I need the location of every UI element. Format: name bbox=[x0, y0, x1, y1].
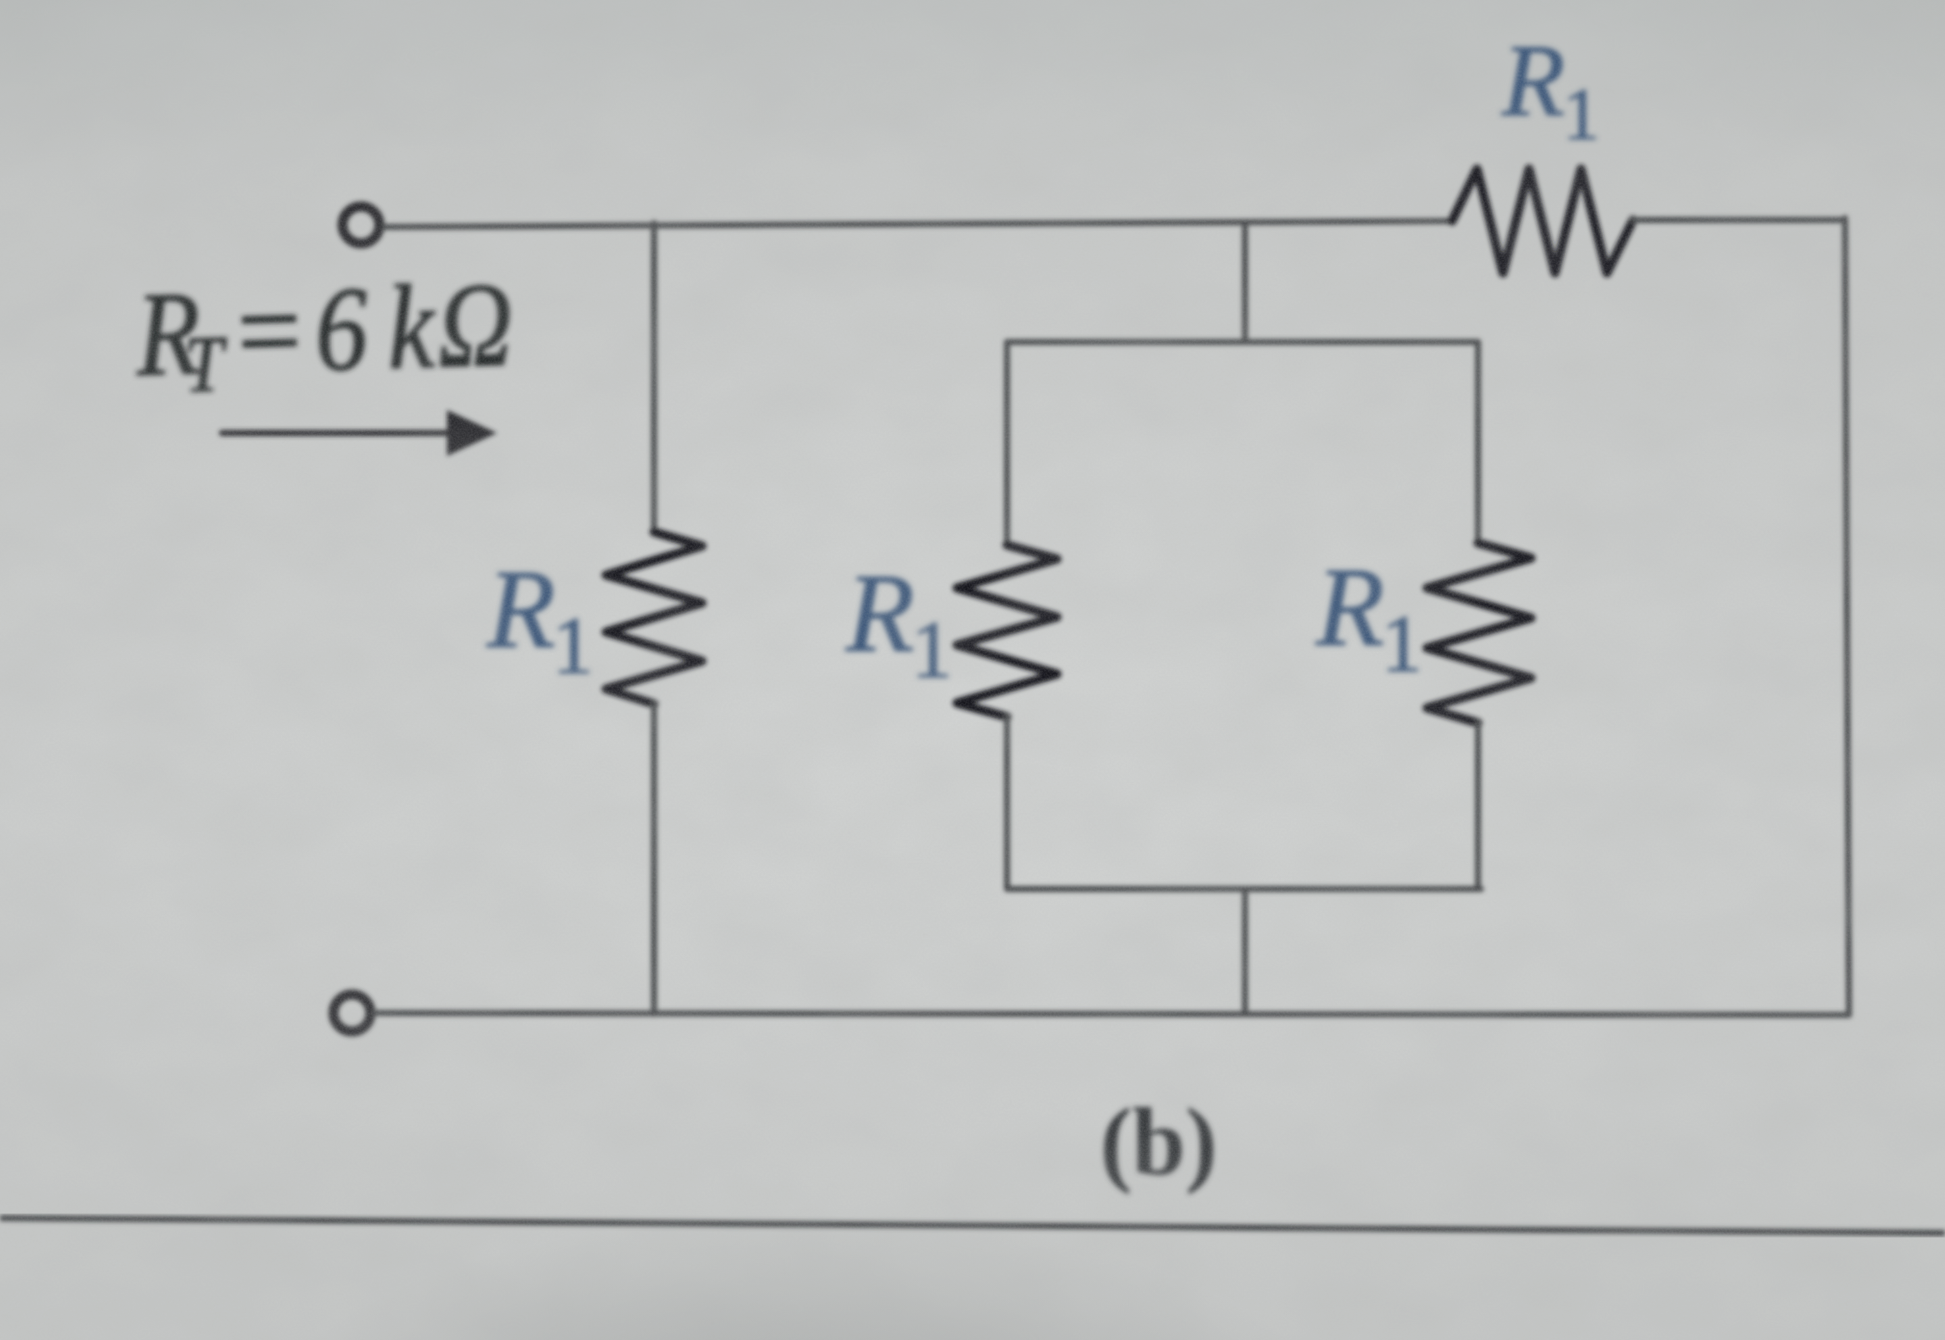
wire: inner-left branch lower lead bbox=[1004, 717, 1010, 889]
wire: left parallel branch, lower lead bbox=[651, 704, 657, 1014]
wire: connector from inner pair down to bottom rail bbox=[1242, 889, 1248, 1014]
wire: top rail, left segment (top terminal to series resistor R1) bbox=[384, 221, 1452, 227]
wire: inner-right branch upper lead bbox=[1475, 342, 1481, 543]
wire: inner-right branch lower lead bbox=[1475, 723, 1481, 889]
terminal: bottom input terminal bbox=[334, 995, 371, 1032]
wire: top rail, right segment (resistor to top-right corner) bbox=[1633, 217, 1845, 223]
arrow: RT measurement direction arrow bbox=[222, 430, 450, 436]
wire: connector from top rail down to inner parallel pair bbox=[1242, 222, 1248, 342]
node B: junction of top rail and inner-pair connector bbox=[1242, 223, 1248, 224]
wire: bottom rail bbox=[374, 1013, 1849, 1015]
terminal: top input terminal bbox=[343, 207, 380, 244]
wire: right side rail bbox=[1845, 218, 1849, 1015]
wire: left parallel branch, upper lead bbox=[651, 225, 657, 532]
node A: junction of top rail and left parallel branch bbox=[651, 223, 657, 224]
resistor R1 (inner-right branch) zigzag bbox=[1427, 543, 1531, 723]
resistor R1 (inner-left branch) zigzag bbox=[957, 545, 1057, 717]
resistor R1 (left parallel branch) zigzag bbox=[606, 532, 702, 704]
wire: inner pair bottom bus bbox=[1007, 886, 1481, 892]
wire: inner pair top bus bbox=[1007, 339, 1478, 345]
resistor R1 (series, top right) zigzag bbox=[1452, 169, 1633, 273]
horizontal rule at page bottom bbox=[0, 1218, 1945, 1233]
wire: inner-left branch upper lead bbox=[1004, 342, 1010, 545]
